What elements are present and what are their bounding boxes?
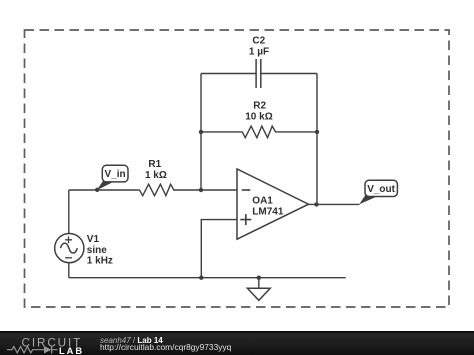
CircuitLab logo diode bar: [51, 346, 53, 354]
wire: non-inverting input down to ground rail: [201, 220, 237, 278]
resistor R1: [140, 184, 238, 196]
wire: feedback top rail right of C2: [261, 73, 317, 75]
svg-text:LAB: LAB: [59, 346, 84, 355]
ground: [247, 278, 270, 301]
op-amp OA1 body: [237, 169, 309, 239]
resistor R2: [201, 126, 317, 138]
node flag V_out: [359, 180, 397, 204]
wire: feedback top rail left of C2: [201, 73, 256, 75]
svg-text:V1: V1: [87, 234, 100, 245]
svg-text:C2: C2: [252, 35, 265, 46]
svg-text:sine: sine: [87, 245, 107, 256]
junction: R2 left / feedback vertical: [199, 130, 203, 134]
footer bar: [0, 331, 474, 355]
svg-text:R1: R1: [148, 159, 161, 170]
CircuitLab logo schematic squiggle (wire + resistor): [7, 347, 58, 353]
wire: bottom rail: [69, 277, 346, 279]
junction: R2 right / feedback vertical: [315, 130, 319, 134]
CircuitLab logo diode triangle: [44, 346, 51, 354]
svg-text:http://circuitlab.com/cqr8gy97: http://circuitlab.com/cqr8gy9733yyq: [100, 342, 232, 352]
svg-text:R2: R2: [253, 100, 266, 111]
wire: feedback right vertical from top loop to output node: [316, 74, 318, 205]
junction: inverting input node: [199, 188, 203, 192]
junction: bottom rail / non-inverting branch: [199, 276, 203, 280]
svg-text:V_out: V_out: [367, 184, 395, 195]
wire: V1 bottom lead: [68, 263, 70, 278]
wire: feedback left vertical from top loop to inverting node: [200, 74, 202, 190]
svg-text:1 kΩ: 1 kΩ: [145, 170, 167, 181]
svg-text:1 kHz: 1 kHz: [87, 256, 113, 267]
wire: V1 top lead: [68, 190, 70, 234]
svg-text:OA1: OA1: [252, 196, 273, 207]
wire: V_in node to R1: [69, 189, 140, 191]
schematic dashed border frame: [25, 30, 450, 307]
junction: bottom rail / ground branch: [257, 276, 261, 280]
capacitor C2: [256, 59, 261, 88]
junction: output node: [314, 202, 318, 206]
node flag V_in: [95, 165, 128, 192]
voltage source V1: [55, 234, 84, 263]
svg-text:LM741: LM741: [252, 207, 284, 218]
op-amp inverting pin mark: [242, 189, 251, 191]
svg-text:10 kΩ: 10 kΩ: [245, 111, 272, 122]
op-amp non-inverting pin mark: [240, 214, 251, 225]
svg-text:V_in: V_in: [105, 169, 126, 180]
svg-text:1 µF: 1 µF: [249, 46, 269, 57]
wire: op-amp output to V_out flag: [309, 203, 360, 205]
